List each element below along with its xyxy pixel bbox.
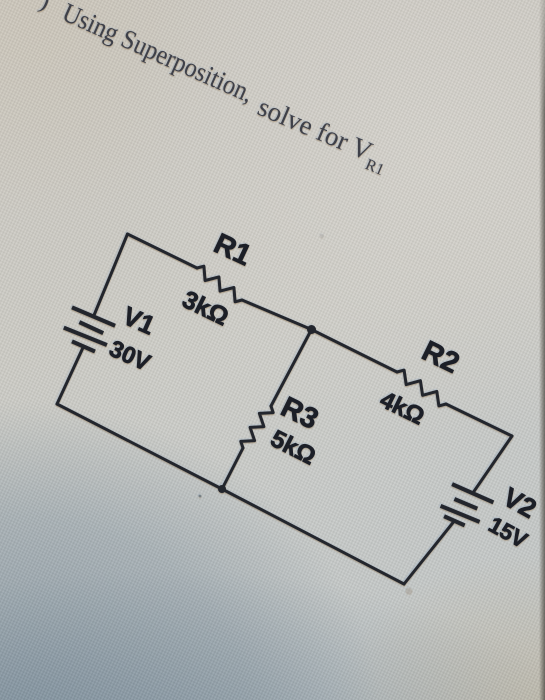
svg-text:solve for VR1: solve for VR1 bbox=[251, 91, 394, 179]
battery V1 bbox=[72, 307, 115, 325]
wire V1 to top-left corner bbox=[94, 234, 128, 317]
wire junction down to R3 bbox=[271, 330, 312, 407]
resistor R1 bbox=[197, 266, 242, 302]
svg-text:30V: 30V bbox=[106, 335, 155, 376]
svg-text:3kΩ: 3kΩ bbox=[178, 285, 233, 331]
resistor R3 bbox=[241, 406, 273, 448]
node junction bottom bbox=[218, 485, 226, 493]
svg-text:Using Superposition,: Using Superposition, bbox=[58, 0, 258, 108]
bottom wire bbox=[57, 404, 404, 584]
paper speck faint bbox=[320, 234, 324, 238]
wire junction to R2 bbox=[312, 330, 398, 373]
paper speck bbox=[199, 495, 202, 498]
battery V2 bbox=[452, 484, 493, 502]
wire bottom-left corner up to V1 bbox=[57, 347, 84, 405]
wire R3 to bottom junction bbox=[222, 448, 243, 489]
svg-text:R2: R2 bbox=[417, 335, 464, 380]
svg-text:R1: R1 bbox=[209, 228, 256, 273]
resistor R2 bbox=[397, 370, 446, 406]
svg-text:5kΩ: 5kΩ bbox=[266, 425, 320, 470]
node junction top bbox=[307, 325, 316, 334]
wire R2 to right corner bbox=[446, 404, 512, 436]
wire right corner down to V2 bbox=[473, 436, 512, 493]
wire V2 to bottom-right corner bbox=[404, 521, 454, 584]
paper smudge bbox=[406, 588, 413, 595]
wire top-left to R1 bbox=[128, 234, 198, 268]
wire R1 to junction bbox=[242, 300, 312, 330]
svg-text:V1: V1 bbox=[118, 300, 159, 340]
svg-text:): ) bbox=[36, 0, 54, 15]
